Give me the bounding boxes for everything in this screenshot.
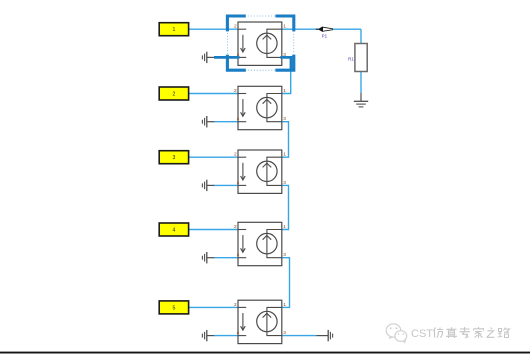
svg-text:P1: P1 (322, 34, 328, 39)
svg-text:1: 1 (173, 27, 176, 33)
svg-text:4: 4 (173, 227, 176, 233)
svg-text:CST: CST (411, 328, 433, 340)
svg-text:3: 3 (173, 155, 176, 161)
svg-text:5: 5 (173, 305, 176, 311)
svg-text:R1: R1 (348, 56, 354, 61)
svg-text:2: 2 (173, 91, 176, 97)
